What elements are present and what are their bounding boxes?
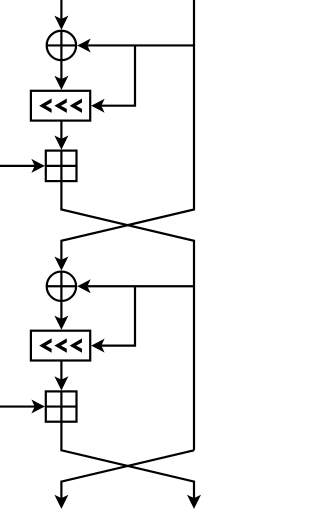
arrowhead into ROT2 right xyxy=(91,339,105,353)
arrowhead into XOR1 right xyxy=(77,38,91,52)
wire B right column down, swap X1 diagonal to left xyxy=(61,0,194,260)
XOR1 cross vertical xyxy=(60,31,62,60)
modular add box ADD1 xyxy=(46,151,77,182)
arrowhead into ADD2 top xyxy=(54,376,68,390)
label chevron 3 of ROT2 xyxy=(70,338,82,352)
wire XOR1 output to ROT1 xyxy=(60,60,62,79)
ADD1 cross horizontal xyxy=(46,165,77,167)
wire ADD2 output down, swap X2 diagonal to right output xyxy=(61,422,194,499)
arrowhead into XOR2 top xyxy=(54,256,68,270)
label chevron 1 of ROT2 xyxy=(39,338,51,352)
ADD1 cross vertical xyxy=(60,151,62,182)
XOR1 cross horizontal xyxy=(47,44,76,46)
label chevron 1 of ROT1 xyxy=(39,99,51,113)
label chevron 2 of ROT2 xyxy=(54,338,66,352)
arrowhead into XOR2 right xyxy=(77,279,91,293)
arrowhead into XOR1 top xyxy=(54,16,68,30)
wire ROT2 output to ADD2 xyxy=(60,361,62,380)
XOR operation X1 circle xyxy=(47,31,76,60)
wire into XOR2 from right column xyxy=(88,285,194,287)
rotate box ROT1 xyxy=(31,91,90,121)
XOR2 cross vertical xyxy=(60,272,62,301)
XOR2 cross horizontal xyxy=(47,285,76,287)
wire round key S[2i] input from left xyxy=(0,165,35,167)
arrowhead output bottom right xyxy=(187,495,201,509)
arrowhead into ROT1 top xyxy=(54,76,68,90)
rotate box ROT2 xyxy=(31,331,90,361)
label chevron 2 of ROT1 xyxy=(54,99,66,113)
wire ROT1 output to ADD1 xyxy=(60,121,62,140)
wire branch to ROT1 amount xyxy=(101,45,135,105)
wire into XOR1 from right column xyxy=(88,44,194,46)
label chevron 3 of ROT1 xyxy=(70,99,82,113)
arrowhead into ADD1 top xyxy=(54,136,68,150)
XOR operation X2 circle xyxy=(47,272,76,301)
wire round key S[2i+1] input from left xyxy=(0,405,35,407)
modular add box ADD2 xyxy=(46,391,77,421)
wire ADD1 output down, swap X1 diagonal to right, right column down xyxy=(61,181,194,450)
ADD2 cross horizontal xyxy=(46,405,77,407)
arrowhead into ADD2 left xyxy=(31,400,45,414)
ADD2 cross vertical xyxy=(60,391,62,421)
wire word A input from top xyxy=(60,0,62,19)
arrowhead output bottom left xyxy=(54,495,68,509)
arrowhead into ADD1 left xyxy=(31,159,45,173)
arrowhead into ROT1 right xyxy=(91,99,105,113)
arrowhead into ROT2 top xyxy=(54,316,68,330)
wire swap X2 diagonal to left output xyxy=(61,450,194,498)
wire branch to ROT2 amount xyxy=(101,286,135,345)
wire XOR2 output to ROT2 xyxy=(60,301,62,319)
